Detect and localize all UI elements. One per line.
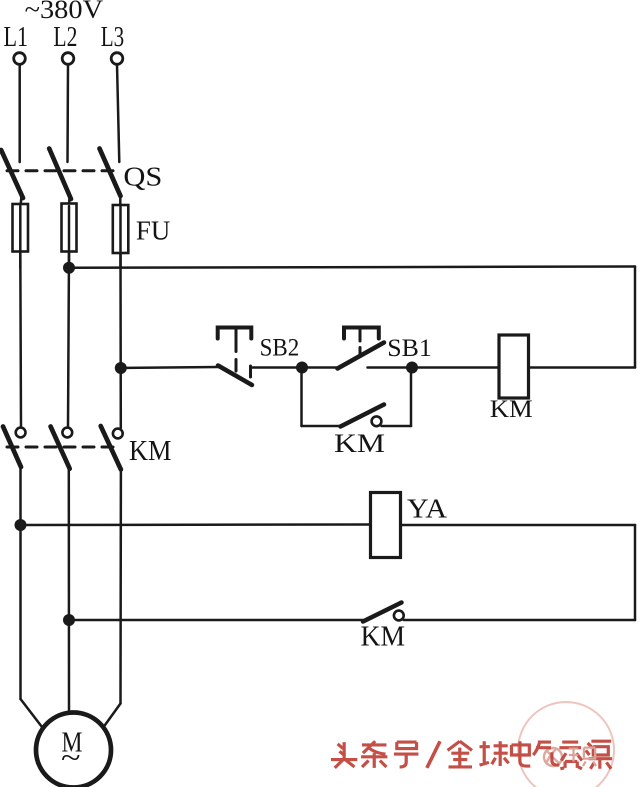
pushbutton SB2 right contact tick (249, 366, 252, 377)
label YA (407, 494, 448, 524)
wire node to SB1 (302, 366, 338, 369)
svg-text:KM: KM (334, 429, 385, 458)
switch QS pole 1 stub (21, 196, 22, 206)
contactor KM pole 2 circle (62, 428, 72, 438)
wire self-hold branch left drop (300, 371, 303, 426)
label KM (coil) (490, 396, 533, 423)
svg-text:SB2: SB2 (260, 335, 300, 362)
wire right bus down to KM coil (634, 267, 637, 368)
label motor tilde (61, 742, 81, 775)
wire YA line right (401, 524, 636, 527)
label QS (123, 162, 162, 192)
wire L2 fuse to KM contact (68, 252, 69, 428)
contact KM bottom blade (363, 603, 402, 622)
contactor KM pole 3 blade (101, 426, 121, 470)
pushbutton SB1 stem dashed (359, 329, 362, 356)
glyph 头 (331, 742, 357, 768)
switch QS pole 3 blade (100, 149, 121, 197)
pushbutton SB2 bracket (218, 328, 252, 339)
svg-text:KM: KM (361, 622, 406, 653)
wire L2 drop to QS (66, 65, 69, 163)
wire YA line left (21, 523, 371, 526)
svg-text:SB1: SB1 (387, 335, 432, 362)
wire motor lead right diagonal (105, 704, 121, 726)
wire KM coil to right bus (529, 366, 636, 369)
node junction after SB2 (296, 362, 308, 374)
pushbutton SB1 blade (338, 343, 385, 369)
contact KM bottom fixed circle (394, 611, 404, 621)
watermark ghost 频 (569, 748, 596, 766)
svg-text:KM: KM (129, 436, 172, 467)
wire self-hold branch right rise (410, 371, 413, 426)
pushbutton SB1 bracket (344, 328, 379, 339)
fuse inner wire 3 (119, 207, 122, 251)
coil YA (371, 493, 401, 558)
terminal L3 (111, 53, 123, 65)
switch QS pole 3 stub (119, 194, 122, 206)
terminal L2 (62, 53, 74, 65)
fuse FU 1 (13, 204, 29, 252)
coil KM (499, 335, 529, 398)
wire SB1 right to node (368, 366, 413, 369)
terminal L1 (14, 53, 26, 65)
glyph 电 (511, 741, 530, 766)
node junction on L3 control tap (115, 362, 127, 374)
switch QS linkage dashed (7, 169, 119, 172)
contact KM aux fixed circle (372, 416, 382, 426)
contactor KM pole 1 circle (16, 428, 26, 438)
wire node to KM coil (412, 366, 499, 369)
label FU (136, 216, 170, 246)
label L3 (101, 22, 124, 53)
watermark text 头条号 / 全球电气资源 (pseudo glyph strokes) (331, 741, 612, 769)
motor M circle (36, 713, 111, 787)
switch QS pole 2 stub (68, 197, 71, 206)
glyph 气 (533, 742, 559, 765)
fuse inner wire 2 (68, 206, 71, 250)
wire self-hold branch bottom left (302, 425, 342, 428)
svg-text:L3: L3 (101, 22, 124, 53)
wire L3 fuse to KM contact (119, 253, 122, 428)
svg-text:~380V: ~380V (25, 0, 104, 24)
wire motor lead left diagonal (21, 699, 43, 727)
node junction on L2 top bus (63, 262, 75, 274)
wire L2 below KM contact (68, 467, 71, 714)
switch QS pole 2 blade (49, 149, 71, 200)
contact KM aux blade (341, 405, 385, 427)
svg-text:L2: L2 (53, 22, 77, 53)
glyph 条 (361, 741, 387, 768)
label KM (main contacts) (129, 436, 172, 467)
label M (62, 727, 83, 759)
wire self-hold branch bottom right (382, 425, 412, 428)
label KM (aux contact) (334, 429, 385, 458)
wire L3 drop to QS (117, 65, 119, 163)
svg-text:KM: KM (490, 396, 533, 423)
node junction bottom tap on L2 (63, 614, 75, 626)
pushbutton SB2 blade (218, 366, 252, 386)
label SB2 (260, 335, 300, 362)
svg-text:L1: L1 (4, 22, 29, 53)
node junction after SB1 (406, 362, 418, 374)
contactor KM pole 3 circle (113, 429, 123, 439)
fuse FU 3 (113, 205, 129, 253)
wire L1 drop to QS (18, 65, 21, 163)
glyph 球 (480, 741, 509, 766)
label L2 (53, 22, 77, 53)
glyph slash (427, 741, 440, 768)
watermark seal circle (518, 702, 614, 787)
glyph 资 (559, 742, 582, 769)
wire right bus YA to KM line (634, 525, 637, 620)
contactor KM pole 1 blade (3, 427, 21, 468)
wire L3 below KM contact (119, 468, 122, 704)
label L1 (4, 22, 29, 53)
fuse inner wire 1 (19, 206, 22, 250)
wire through fuse 2 (68, 204, 71, 268)
pushbutton SB2 stem lower (235, 360, 238, 372)
wire bottom line left (69, 619, 363, 622)
watermark seal inner globe (544, 748, 562, 766)
wire L1 fuse to KM contact (19, 252, 22, 428)
label SB1 (387, 335, 432, 362)
svg-text:YA: YA (407, 494, 448, 524)
switch QS pole 1 blade (1, 150, 23, 198)
glyph 源 (586, 741, 612, 769)
contactor KM linkage dashed (7, 446, 121, 449)
label ~380V (25, 0, 104, 24)
svg-text:~: ~ (61, 742, 81, 775)
contactor KM pole 2 blade (51, 427, 70, 469)
wire control line to SB2 (121, 367, 219, 368)
wire through fuse 1 (19, 204, 22, 268)
glyph 号 (394, 742, 418, 767)
wire SB2 to node (251, 366, 303, 369)
wire through fuse 3 (119, 204, 122, 268)
wire L1 below KM contact (19, 465, 22, 699)
wire bottom line right (404, 619, 635, 622)
svg-text:QS: QS (123, 162, 162, 192)
node junction YA tap on L1 (15, 519, 27, 531)
wire top bus horizontal (69, 267, 635, 268)
pushbutton SB2 stem (235, 329, 238, 352)
fuse FU 2 (62, 204, 77, 252)
glyph 全 (448, 741, 472, 767)
label KM (bottom contact) (361, 622, 406, 653)
svg-text:FU: FU (136, 216, 170, 246)
